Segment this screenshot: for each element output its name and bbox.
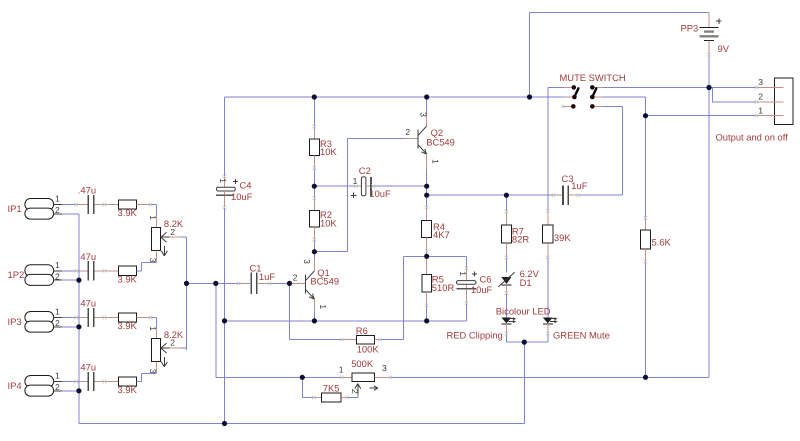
- wire emitter ground row: [225, 320, 467, 322]
- wire IP4 pin2 to return bus: [62, 390, 79, 392]
- svg-text:GREEN Mute: GREEN Mute: [553, 329, 610, 340]
- svg-text:1: 1: [353, 176, 358, 186]
- svg-text:4K7: 4K7: [433, 229, 450, 240]
- svg-text:3.9K: 3.9K: [118, 384, 138, 395]
- svg-text:Bicolour LED: Bicolour LED: [496, 306, 551, 317]
- svg-text:10uF: 10uF: [369, 188, 391, 199]
- connector IP3: [25, 312, 62, 333]
- wire pole B bottom down to C3: [578, 106, 622, 195]
- svg-text:R6: R6: [356, 325, 368, 336]
- potentiometer 500K: [342, 373, 390, 395]
- wire 5.6K to bottom rail: [645, 262, 647, 378]
- wire 7K5 to wiper: [347, 395, 358, 398]
- resistor R2: [309, 198, 319, 239]
- resistor R6: [342, 335, 380, 344]
- wire 3.9K to pot: [137, 204, 151, 206]
- capacitor 47u row IP1: [76, 195, 118, 214]
- svg-text:1: 1: [148, 215, 158, 220]
- svg-text:10uF: 10uF: [231, 191, 253, 202]
- junction emitter R7 rail: [424, 193, 429, 198]
- wire 39K to green LED: [547, 258, 549, 318]
- wire IP3 pin1: [62, 317, 76, 319]
- wire IP1 pin2 to return bus: [62, 213, 79, 215]
- potentiometer 8.2K #1: [151, 216, 186, 263]
- svg-text:1: 1: [339, 364, 344, 374]
- svg-text:2: 2: [758, 92, 763, 102]
- svg-text:7K5: 7K5: [323, 383, 340, 394]
- junction Q2 emitter C2: [424, 184, 429, 189]
- wire node to C2: [314, 185, 356, 187]
- LED red clipping: [501, 317, 516, 333]
- svg-text:100K: 100K: [357, 344, 380, 355]
- svg-text:IP1: IP1: [8, 203, 22, 214]
- wire Q1 collector node to Q2 base: [314, 139, 404, 252]
- svg-text:IP3: IP3: [8, 316, 22, 327]
- zener diode D1: [498, 272, 514, 293]
- wire R2 to Q1 collector node: [313, 240, 315, 252]
- svg-text:9V: 9V: [718, 43, 730, 54]
- svg-text:39K: 39K: [554, 232, 571, 243]
- wire ground bottom rail: [79, 423, 524, 425]
- wire LED common to ground rail: [523, 342, 525, 423]
- wire C1 to Q1 base: [270, 282, 290, 284]
- wire Q1 base down to R6: [290, 283, 342, 339]
- wire feedback vertical to 500K row: [216, 283, 342, 377]
- svg-text:2: 2: [405, 127, 410, 137]
- svg-text:2: 2: [170, 338, 175, 348]
- junction emitter wire to ground: [222, 318, 227, 323]
- wire 3.9K lead 1P2: [137, 270, 142, 272]
- svg-text:10K: 10K: [320, 146, 337, 157]
- svg-text:.47u: .47u: [78, 298, 96, 309]
- svg-text:RED Clipping: RED Clipping: [447, 330, 503, 341]
- svg-text:2: 2: [170, 227, 175, 237]
- svg-text:2: 2: [55, 205, 60, 215]
- junction rail R3: [312, 94, 317, 99]
- svg-text:3: 3: [758, 77, 763, 87]
- connector output and on-off: [757, 78, 793, 125]
- wire rail to R3: [313, 97, 315, 127]
- wire Q2 emitter down: [426, 170, 428, 186]
- junction R5 bottom: [424, 318, 429, 323]
- svg-text:1: 1: [55, 371, 60, 381]
- svg-text:10K: 10K: [320, 218, 337, 229]
- junction rail Q2 collector: [424, 94, 429, 99]
- wire battery plus top: [530, 12, 710, 14]
- svg-text:3: 3: [148, 258, 158, 263]
- LED green mute: [543, 317, 558, 333]
- svg-text:3.9K: 3.9K: [118, 207, 138, 218]
- wire pot 2 pin3 to next input: [137, 374, 157, 382]
- svg-text:1uF: 1uF: [259, 271, 275, 282]
- junction LED common: [522, 340, 527, 345]
- svg-text:3: 3: [419, 112, 429, 117]
- junction R3 R2 C2: [312, 184, 317, 189]
- wire 39K branch: [547, 211, 549, 225]
- svg-text:500K: 500K: [351, 358, 374, 369]
- svg-text:IP4: IP4: [8, 380, 22, 391]
- capacitor C3: [554, 186, 579, 205]
- svg-text:1: 1: [430, 159, 440, 164]
- wire junction to connector pin 3: [709, 87, 757, 89]
- transistor Q2 BC549: [405, 114, 427, 170]
- svg-text:D1: D1: [520, 277, 532, 288]
- svg-text:C6: C6: [480, 274, 492, 285]
- wire rail to switch commons: [530, 96, 565, 98]
- junction 500K 7K5: [300, 375, 305, 380]
- wire box left side / R6 riser: [403, 256, 405, 339]
- junction R4 bottom: [424, 254, 429, 259]
- wire input return bus: [78, 214, 80, 424]
- svg-text:10uF: 10uF: [471, 284, 493, 295]
- wire 1P2 pin2 to return bus: [62, 279, 79, 281]
- junction Q1 emitter: [312, 318, 317, 323]
- junction 5.6K rail: [643, 375, 648, 380]
- resistor 3.9K IP1: [119, 200, 137, 209]
- resistor 3.9K IP4: [119, 377, 137, 386]
- wire pole B middle to output node: [602, 97, 645, 218]
- svg-text:1: 1: [55, 194, 60, 204]
- svg-text:2: 2: [55, 382, 60, 392]
- wire branch to connector pin 2: [713, 88, 757, 102]
- wire R7 to D1: [505, 258, 507, 273]
- capacitor 47u row 1P2: [76, 261, 118, 280]
- junction return bus IP3: [76, 324, 81, 329]
- junction Q1 collector: [312, 249, 317, 254]
- wire IP4 pin1: [62, 381, 76, 383]
- svg-text:1: 1: [218, 178, 228, 183]
- svg-text:C4: C4: [240, 180, 252, 191]
- wire right rail bottom: [390, 376, 709, 378]
- junction rail battery riser: [527, 94, 532, 99]
- svg-text:BC549: BC549: [426, 136, 455, 147]
- svg-text:.47u: .47u: [78, 251, 96, 262]
- capacitor 47u row IP4: [76, 372, 118, 391]
- svg-text:510R: 510R: [432, 282, 455, 293]
- svg-text:2: 2: [55, 272, 60, 282]
- wire emitter node to R7 C3 rail: [427, 194, 554, 196]
- wire emitter node down: [426, 186, 428, 195]
- wire rail to C4: [224, 97, 226, 176]
- junction wiper bus: [184, 281, 189, 286]
- svg-text:1: 1: [458, 271, 468, 276]
- wire top left drop to rail: [529, 13, 531, 98]
- svg-text:PP3: PP3: [681, 23, 699, 34]
- wire summing bus to C1: [187, 282, 239, 284]
- wire switch common down to 39K: [547, 97, 549, 211]
- capacitor C4: [216, 176, 238, 207]
- wire R6 to riser: [380, 339, 404, 341]
- svg-text:Output and on off: Output and on off: [716, 132, 789, 143]
- svg-text:BC549: BC549: [310, 276, 339, 287]
- svg-text:.47u: .47u: [78, 362, 96, 373]
- svg-text:1P2: 1P2: [8, 269, 25, 280]
- wire C6 branch: [466, 256, 468, 268]
- wire C2 to Q2 emitter node: [373, 185, 427, 187]
- resistor R3: [309, 127, 319, 169]
- wire 1P2 pin1: [62, 270, 76, 272]
- connector IP1: [25, 199, 62, 220]
- svg-text:MUTE SWITCH: MUTE SWITCH: [560, 72, 626, 83]
- junction return bus IP4: [76, 388, 81, 393]
- junction Q1 base: [287, 281, 292, 286]
- svg-text:1uF: 1uF: [571, 180, 587, 191]
- svg-text:3: 3: [302, 259, 312, 264]
- capacitor C2: [351, 177, 373, 198]
- wire R3 to node: [313, 168, 315, 186]
- wire rail to Q2 collector: [426, 97, 428, 114]
- connector IP4: [25, 376, 62, 397]
- svg-text:1: 1: [148, 326, 158, 331]
- wire pot 1 pin3 to next input: [137, 263, 157, 271]
- wire pot wiper bus vertical: [186, 237, 188, 350]
- potentiometer 8.2K #2: [151, 329, 186, 374]
- resistor R4: [422, 207, 432, 251]
- svg-text:1: 1: [758, 105, 763, 115]
- connector 1P2: [25, 265, 62, 286]
- svg-text:1: 1: [55, 307, 60, 317]
- svg-text:C2: C2: [359, 165, 371, 176]
- battery PP3: [700, 13, 722, 55]
- capacitor C6: [457, 268, 478, 303]
- svg-text:2: 2: [55, 318, 60, 328]
- resistor 3.9K IP3: [119, 313, 137, 322]
- wire b+ rail: [225, 96, 530, 98]
- svg-text:2: 2: [350, 389, 360, 394]
- wire 3.9K to pot: [137, 317, 151, 319]
- junction R7 top: [504, 193, 509, 198]
- mute switch pole A: [563, 85, 578, 109]
- wire node to R4: [426, 195, 428, 207]
- wire green LED to common: [547, 334, 549, 343]
- svg-text:5.6K: 5.6K: [652, 237, 672, 248]
- junction output signal tap: [643, 113, 648, 118]
- transistor Q1 BC549: [292, 252, 315, 321]
- svg-text:82R: 82R: [512, 233, 529, 244]
- mute switch pole B: [590, 85, 602, 109]
- svg-text:1: 1: [55, 260, 60, 270]
- resistor R7: [501, 212, 511, 258]
- resistor R5: [422, 256, 431, 305]
- resistor 39K: [543, 225, 553, 258]
- wire output signal to connector pin 1: [646, 115, 757, 117]
- svg-text:.47u: .47u: [78, 185, 96, 196]
- svg-text:1: 1: [318, 304, 328, 309]
- svg-text:3: 3: [148, 369, 158, 374]
- wire C4 to ground rail: [224, 208, 226, 424]
- wire D1 to red LED: [505, 293, 507, 317]
- wire IP3 pin2 to return bus: [62, 326, 79, 328]
- svg-text:3.9K: 3.9K: [118, 273, 138, 284]
- junction feedback tap: [213, 281, 218, 286]
- resistor 7K5: [314, 393, 347, 402]
- junction ground rail: [222, 421, 227, 426]
- wire 7K5 loop: [302, 377, 314, 397]
- svg-text:3.9K: 3.9K: [118, 320, 138, 331]
- wire red LED to common: [506, 334, 547, 343]
- wire IP1 pin1: [62, 204, 76, 206]
- wire node to R2: [313, 186, 315, 198]
- wire R4 node box top: [404, 255, 467, 257]
- wire pole B top to battery junction: [602, 86, 709, 88]
- junction return bus 1P2: [76, 278, 81, 283]
- resistor 3.9K 1P2: [119, 266, 137, 275]
- capacitor C1: [239, 273, 270, 295]
- junction battery / pin3: [706, 85, 711, 90]
- wire 3.9K lead IP4: [137, 381, 142, 383]
- svg-text:2: 2: [293, 272, 298, 282]
- svg-text:3: 3: [382, 363, 387, 373]
- capacitor 47u row IP3: [76, 308, 118, 327]
- wire R7 branch: [505, 195, 507, 211]
- wire battery negative down right side: [708, 55, 710, 378]
- resistor 5.6K: [640, 218, 650, 262]
